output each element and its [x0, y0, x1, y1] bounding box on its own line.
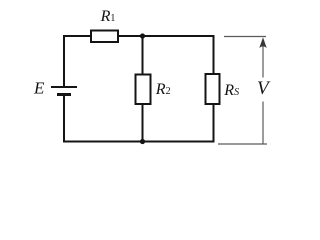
svg-text:E: E	[33, 79, 45, 98]
svg-text:RS: RS	[223, 82, 239, 99]
label R1	[100, 8, 116, 25]
wire: bottom horizontal	[63, 141, 215, 143]
wire: R2 branch upper	[142, 36, 144, 75]
arrow V: vertical shaft (lower segment)	[262, 102, 264, 144]
label RS	[223, 82, 239, 99]
svg-text:V: V	[257, 78, 271, 99]
arrow V: vertical shaft (upper segment)	[262, 46, 264, 78]
wire: top horizontal from R1 to right corner	[118, 35, 215, 37]
svg-text:R2: R2	[155, 81, 171, 98]
wire: top-left horizontal from left corner to R1	[63, 35, 91, 37]
wire: left vertical lower (battery to bottom)	[63, 96, 65, 143]
resistor R1 (horizontal box)	[91, 31, 118, 43]
wire: RS branch lower	[213, 104, 215, 143]
wire: left vertical upper (to battery)	[63, 35, 65, 86]
resistor R2 (vertical box)	[136, 75, 151, 105]
node: bottom junction dot	[140, 139, 145, 144]
label V	[257, 78, 271, 99]
label E	[33, 79, 45, 98]
measurement tick: top reference line	[224, 36, 266, 38]
battery E (long and short plates)	[51, 87, 77, 95]
arrow V: upward arrowhead	[259, 37, 266, 48]
resistor RS (vertical box)	[206, 74, 220, 104]
label R2	[155, 81, 171, 98]
wire: R2 branch lower	[142, 104, 144, 142]
wire: RS branch upper	[213, 35, 215, 74]
node: top junction dot	[140, 33, 145, 38]
measurement tick: bottom reference line	[218, 143, 267, 145]
svg-text:R1: R1	[100, 8, 116, 25]
